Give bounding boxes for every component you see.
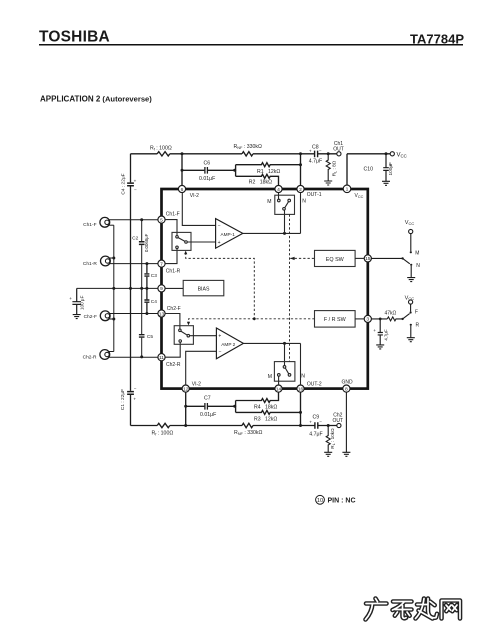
pin 11 [158, 354, 165, 361]
glyph wang inner [442, 601, 461, 619]
arrowhead EQ link [290, 257, 295, 260]
wire pin12 to AMP2 - [186, 351, 217, 385]
node junction R1 / pin2 riser [299, 163, 302, 166]
wire Ch1-R signal [110, 263, 158, 265]
node junction C3C4/pin9 wire [145, 287, 148, 290]
svg-text:C3: C3 [151, 273, 157, 279]
node junction RL tap (bottom) [327, 424, 330, 427]
svg-text:AMP-1: AMP-1 [221, 232, 236, 237]
svg-text:5: 5 [160, 217, 163, 223]
svg-text:8: 8 [345, 386, 348, 392]
svg-text:Ch2-R: Ch2-R [166, 362, 181, 368]
capacitor C3 plates [144, 274, 149, 276]
dashed link EQ SW [290, 257, 314, 259]
node junction dashed S1/FR [253, 317, 256, 320]
svg-text:Rf : 100Ω: Rf : 100Ω [152, 431, 174, 437]
terminal Vcc FR [409, 300, 413, 304]
head Ch2-R [100, 350, 110, 360]
resistor RL 10k (vertical) [326, 426, 330, 453]
wire pole riser to MN box1 [284, 210, 286, 233]
svg-text:1: 1 [346, 187, 349, 193]
wire Ch2-F signal [110, 313, 158, 315]
node junction rail/pin9 wire [129, 287, 132, 290]
op-amp AMP-2 [216, 328, 243, 359]
watermark guangdonglong [366, 599, 461, 620]
svg-text:C2: C2 [132, 236, 138, 242]
svg-text:Rf : 100Ω: Rf : 100Ω [150, 146, 172, 152]
svg-text:M: M [415, 250, 419, 256]
svg-text:15: 15 [365, 256, 371, 262]
resistor Rf (bottom) [157, 423, 170, 427]
svg-text:Ch2-R: Ch2-R [83, 355, 97, 361]
svg-text:+: + [218, 240, 221, 246]
contact MN1 M [278, 199, 281, 202]
svg-text:Ch1-R: Ch1-R [166, 268, 181, 274]
capacitor 100uF ripple [72, 288, 81, 314]
wire left rail (22uF rail) [130, 154, 132, 426]
wire AMP2 output [243, 342, 300, 344]
svg-text:R4 18kΩ: R4 18kΩ [254, 405, 277, 411]
svg-text:0.01μF: 0.01μF [200, 412, 216, 418]
svg-text:6: 6 [181, 187, 184, 193]
switch arm S2 [181, 331, 188, 335]
svg-text:AMP 2: AMP 2 [221, 342, 235, 347]
node junction 4.7uF tap [379, 318, 382, 321]
svg-text:Ch1-F: Ch1-F [83, 222, 96, 228]
block F/R SW [315, 311, 356, 328]
wire C7 branch [186, 405, 235, 407]
svg-text:N: N [302, 198, 306, 204]
svg-text:2: 2 [299, 187, 302, 193]
contact S1 pole [185, 241, 188, 244]
svg-text:Ch2-F: Ch2-F [84, 314, 97, 320]
wire pin4 stub [278, 193, 280, 200]
svg-text:RL : 8Ω: RL : 8Ω [332, 160, 338, 176]
node junction R3 / pin16 riser [299, 411, 302, 414]
svg-text:BIAS: BIAS [198, 286, 210, 292]
svg-text:Ch1-F: Ch1-F [166, 212, 180, 218]
node junction C7 / R3R4 block [233, 405, 236, 408]
svg-text:+: + [69, 296, 72, 301]
contact S1 top [176, 236, 179, 239]
svg-text:OUT: OUT [333, 418, 344, 424]
svg-text:C10: C10 [364, 166, 374, 172]
wire S1 pole to AMP1 + [187, 241, 215, 243]
svg-text:N: N [416, 263, 420, 269]
node junction pin2 riser / top wire [299, 152, 302, 155]
ground pin8 [342, 452, 350, 456]
svg-text:16: 16 [298, 386, 304, 392]
wire R3R4 left tie [235, 401, 237, 413]
wire S2 pole to AMP2 + [190, 335, 217, 337]
pin 16 [297, 385, 304, 392]
wire pin12 riser [185, 392, 187, 425]
node junction C2C5/pin9 wire [140, 287, 143, 290]
terminal Vcc EQ [409, 229, 413, 233]
wire FR F to Vcc [410, 304, 412, 311]
capacitor C4 22uF plates [127, 183, 134, 186]
block BIAS [183, 280, 224, 295]
pin 3 [364, 315, 371, 322]
switch box MN2 (output reverse ch2) [274, 362, 295, 382]
capacitor C5 plates [139, 335, 145, 337]
glyph guang inner [366, 599, 387, 620]
contact S2 pole [187, 334, 190, 337]
switch box MN1 (output reverse ch1) [275, 195, 295, 214]
wire pin16 riser [300, 392, 302, 425]
ground RL bottom [324, 452, 332, 456]
svg-text:R: R [416, 323, 420, 329]
node junction pin12 riser / bottom wire [184, 424, 187, 427]
wire switch1 to pin7 [165, 249, 177, 264]
node junction C2/Ch1F wire [140, 218, 143, 221]
wire AMP2 out to pin16 [300, 343, 302, 385]
wire pin15 to EQ switch [371, 257, 402, 259]
svg-text:VCC: VCC [397, 152, 407, 158]
contact EQ pole [401, 257, 403, 259]
svg-text:+: + [218, 334, 221, 340]
svg-text:−: − [134, 187, 137, 192]
wire pin2 riser [300, 154, 302, 186]
wire EQ N to ground [410, 266, 412, 278]
arrowhead into S1 [184, 251, 187, 255]
svg-text:100 μF: 100 μF [79, 295, 84, 310]
glyph dong outline [393, 602, 412, 619]
svg-text:VI-2: VI-2 [192, 381, 201, 387]
terminal Ch1 OUT [337, 152, 341, 156]
svg-text:11: 11 [159, 355, 164, 361]
svg-text:N: N [301, 373, 305, 379]
wire pin6 riser [181, 154, 183, 186]
contact MN1 pole [283, 208, 286, 211]
wire Ch1-F return [109, 224, 114, 226]
svg-text:+: + [373, 328, 376, 333]
wire bottom NF rail ch2 [131, 425, 337, 427]
resistor R2 18k (row) [236, 174, 279, 185]
svg-text:R1 12kΩ: R1 12kΩ [257, 169, 280, 175]
svg-text:M: M [268, 374, 272, 380]
svg-text:F: F [415, 310, 418, 316]
svg-text:APPLICATION 2 (Autoreverse): APPLICATION 2 (Autoreverse) [40, 95, 152, 104]
svg-text:C4: C4 [151, 299, 157, 305]
note circled pin10 NC [316, 495, 325, 504]
block EQ SW [315, 250, 356, 266]
node junction pin6 riser / top wire [181, 152, 184, 155]
wire pin3 to resistor [371, 318, 387, 320]
resistor RNF (top) [242, 152, 253, 156]
ground FR R [407, 338, 415, 342]
contact S1 bottom [176, 246, 179, 249]
ground 4.7uF pin3 [376, 345, 384, 349]
svg-text:R3 12kΩ: R3 12kΩ [254, 416, 277, 422]
node junction C3/Ch1R wire [145, 262, 148, 265]
capacitor C9 4.7uF plates [315, 422, 318, 428]
contact FR pole [401, 318, 403, 320]
wire pin8 GND riser [345, 392, 347, 452]
wire Ch1-R return [109, 257, 114, 259]
pin 12 [182, 385, 189, 392]
svg-text:RNF : 330kΩ: RNF : 330kΩ [234, 430, 263, 436]
svg-text:0.0068μF: 0.0068μF [144, 233, 149, 252]
wire switch2 to pin11 [165, 342, 180, 357]
svg-text:RNF : 330kΩ: RNF : 330kΩ [234, 144, 263, 150]
wire Ch1-F signal [109, 219, 158, 221]
contact EQ N [410, 264, 412, 266]
capacitor 4.7uF pin3 [378, 319, 383, 345]
wire pin1 riser [346, 154, 348, 185]
node junction C5/Ch2R wire [140, 355, 143, 358]
wire EQ M to Vcc [410, 234, 412, 252]
switch arm EQ [403, 258, 410, 263]
pin 1 Vcc [343, 185, 351, 193]
contact S2 top [179, 329, 182, 332]
contact MN2 pole [283, 366, 286, 369]
svg-text:F / R SW: F / R SW [324, 317, 347, 323]
svg-text:PIN : NC: PIN : NC [328, 498, 356, 505]
arrowhead into S2 [187, 322, 190, 326]
op-amp AMP-1 [216, 219, 243, 249]
wire Ch2-F return [110, 318, 114, 320]
svg-text:C4 : 22μF: C4 : 22μF [120, 173, 126, 194]
svg-text:−: − [319, 419, 322, 424]
switch arm S1 [178, 238, 185, 242]
pin 4 [275, 185, 282, 192]
resistor Rf (top) [157, 152, 170, 156]
wire FR R to ground [410, 326, 412, 338]
switch box S2 (input select ch2) [174, 326, 193, 345]
svg-text:+: + [133, 396, 136, 401]
switch arm FR [403, 314, 410, 319]
wire pin5 to switch1 [165, 220, 177, 236]
ground EQ N [407, 278, 415, 282]
head Ch1-F [100, 217, 110, 227]
svg-text:R2 18kΩ: R2 18kΩ [249, 179, 272, 185]
capacitor C4b plates [144, 300, 149, 302]
resistor 47k [387, 317, 402, 321]
contact EQ M [410, 251, 412, 253]
contact FR F [410, 311, 412, 313]
contact MN1 N [288, 199, 291, 202]
svg-text:−: − [219, 350, 222, 356]
svg-text:EQ SW: EQ SW [326, 257, 345, 263]
svg-text:M: M [267, 199, 271, 205]
svg-text:9: 9 [160, 286, 163, 292]
head Ch2-F [100, 311, 110, 321]
svg-text:C5: C5 [147, 334, 153, 340]
capacitor C1 22uF plates [127, 392, 134, 395]
wire MN2 M to pin14 [278, 376, 280, 385]
pin 13 [158, 310, 165, 317]
wire FRSW to pin3 [355, 318, 364, 320]
svg-text:14: 14 [276, 386, 282, 392]
pin 15 [364, 255, 371, 262]
dashed link S1 control [186, 253, 255, 319]
capacitor C2 plates [139, 242, 145, 245]
svg-text:RL : 10kΩ: RL : 10kΩ [330, 428, 336, 449]
HEADER [39, 29, 464, 104]
wire pin6 to AMP1 - [182, 193, 215, 226]
svg-text:−: − [218, 224, 221, 230]
switch arm MN2 [285, 368, 288, 374]
wire pin9 to BIAS [165, 287, 183, 289]
switch arm MN1 [285, 202, 289, 208]
svg-text:+: + [309, 420, 312, 425]
pin 9 [158, 285, 165, 292]
resistor R1 12k (row) [236, 163, 301, 167]
svg-text:13: 13 [159, 311, 165, 317]
pin 7 [158, 260, 165, 267]
contact MN2 M [278, 374, 281, 377]
svg-text:−: − [134, 386, 137, 391]
wire C5 rail [141, 288, 143, 357]
svg-text:OUT-1: OUT-1 [307, 192, 322, 198]
capacitor C8 4.7uF plates [315, 151, 318, 158]
glyph guang outline [366, 599, 387, 620]
wire pin13 to switch2 [165, 314, 180, 330]
svg-text:OUT-2: OUT-2 [307, 382, 322, 388]
pin 14 [275, 385, 282, 392]
svg-text:−: − [319, 148, 322, 153]
glyph long outline [416, 599, 438, 619]
svg-text:+: + [309, 149, 312, 154]
svg-text:VI-2: VI-2 [190, 193, 199, 199]
resistor RNF (bottom) [242, 423, 253, 427]
svg-text:C1 : 22μF: C1 : 22μF [120, 389, 126, 410]
ground 100uF [73, 315, 81, 319]
svg-text:4.7μF: 4.7μF [309, 432, 322, 438]
node junction C6 tap on pin6 riser [181, 169, 184, 172]
node junction M/N pole riser (top) [283, 232, 286, 235]
resistor R3 12k (row) [236, 410, 301, 414]
IC TA7784P body [162, 189, 368, 389]
contact MN2 N [288, 374, 291, 377]
svg-text:4: 4 [277, 187, 280, 193]
svg-text:+: + [134, 179, 137, 184]
svg-text:0.01μF: 0.01μF [199, 176, 215, 182]
capacitor C6 0.01uF [205, 167, 208, 174]
contact FR R [410, 324, 412, 326]
resistor R4 18k (row) [236, 392, 279, 402]
node junction return/pin9 wire [112, 287, 115, 290]
svg-text:C6: C6 [204, 161, 211, 167]
wire AMP1 out to pin2 [300, 193, 302, 234]
svg-text:GND: GND [342, 380, 354, 386]
switch box S1 (input select ch1) [172, 232, 191, 250]
dashed link MN1 to MN2 [289, 214, 291, 361]
svg-text:7: 7 [160, 261, 163, 267]
dashed link F/R control [189, 319, 315, 324]
wire pole riser to MN box2 [284, 343, 286, 366]
wire top NF rail ch1 [131, 153, 337, 155]
wire Vcc rail [347, 153, 390, 155]
pin 6 [178, 185, 185, 192]
terminal Vcc [390, 152, 394, 156]
svg-text:TOSHIBA: TOSHIBA [39, 29, 110, 46]
node junction C10 tap [385, 152, 388, 155]
node junction C7 tap [184, 405, 187, 408]
node junction pin16 riser / bottom wire [299, 424, 302, 427]
svg-text:100μF: 100μF [388, 162, 393, 176]
svg-text:VCC: VCC [405, 220, 415, 226]
svg-text:12: 12 [183, 386, 189, 392]
svg-text:4.7μF: 4.7μF [309, 158, 322, 164]
svg-text:10: 10 [317, 498, 323, 504]
wire head return rail [113, 225, 115, 351]
svg-text:OUT: OUT [333, 147, 344, 153]
wire EQSW to pin15 [355, 257, 364, 259]
pin 5 [158, 216, 165, 223]
node junction C4/Ch2F wire [145, 312, 148, 315]
wire pin9 / ripple ground [77, 287, 158, 289]
ground C10 [382, 181, 390, 185]
glyph long inner [416, 599, 438, 619]
svg-text:4.7μF: 4.7μF [383, 329, 388, 341]
svg-text:C8: C8 [312, 145, 319, 151]
svg-text:Ch1-R: Ch1-R [83, 261, 97, 267]
node junction M/N pole riser (bottom) [283, 342, 286, 345]
terminal Ch2 OUT [337, 423, 341, 427]
wire C6 branch [182, 169, 235, 171]
svg-text:VCC: VCC [405, 295, 415, 301]
capacitor C7 0.01uF [205, 403, 208, 410]
wire R1R2 left tie [235, 165, 237, 177]
pin 8 [343, 385, 350, 392]
contact S2 bottom [179, 340, 182, 343]
capacitor C10 100uF [383, 154, 389, 182]
glyph dong inner [393, 602, 412, 619]
svg-text:Ch2-F: Ch2-F [167, 306, 181, 312]
node junction return/Ch2F [112, 318, 115, 321]
ground RL top [324, 181, 332, 185]
svg-text:47kΩ: 47kΩ [385, 311, 397, 317]
node junction C6 / R1R2 block [233, 169, 236, 172]
node junction RL tap (top) [327, 152, 330, 155]
wire Ch2-R return [109, 351, 114, 353]
wire AMP1 output [243, 232, 301, 234]
wire C3C4 rail [146, 264, 148, 314]
head Ch1-R [101, 256, 111, 266]
pin 2 [297, 185, 304, 192]
wire Ch2-R signal [109, 356, 158, 358]
svg-text:3: 3 [366, 317, 369, 323]
svg-text:C7: C7 [204, 396, 211, 402]
resistor RL 8ohm (vertical) [326, 154, 330, 181]
wire C2 rail [141, 220, 143, 289]
node junction return/Ch1R [112, 257, 115, 260]
glyph wang outline [442, 601, 461, 619]
